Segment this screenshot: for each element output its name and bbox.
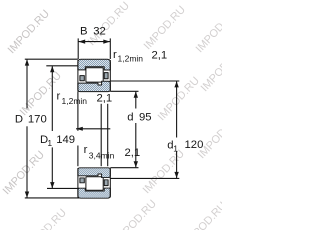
wire: d extension bottom <box>110 167 138 169</box>
wire: B extension right <box>109 38 111 59</box>
wire: axis leader line <box>76 128 110 130</box>
arrow D1 down <box>50 182 54 188</box>
arrow D down <box>25 192 29 198</box>
svg-text:B: B <box>80 26 88 38</box>
svg-text:120: 120 <box>185 139 204 151</box>
dimension line D (lower part) <box>26 126 28 197</box>
wire: d extension top <box>110 90 138 92</box>
arrow d1 up <box>174 81 178 87</box>
svg-text:2,1: 2,1 <box>125 147 141 159</box>
svg-text:1: 1 <box>173 143 178 153</box>
svg-text:1,2min: 1,2min <box>118 54 144 64</box>
wire: d1 extension top <box>110 80 179 82</box>
svg-text:95: 95 <box>139 112 152 124</box>
svg-text:1,2min: 1,2min <box>62 96 88 106</box>
wire: section left edge <box>77 60 79 91</box>
arrow B left <box>78 40 85 44</box>
svg-text:2,1: 2,1 <box>97 93 113 105</box>
svg-text:2,1: 2,1 <box>152 50 168 62</box>
svg-text:1: 1 <box>47 138 52 148</box>
dimension line D1 (lower part) <box>51 147 53 188</box>
arrow d1 down <box>174 172 178 178</box>
arrow d down <box>134 161 138 167</box>
arrow B right <box>103 40 110 44</box>
outer ring upper <box>78 59 110 70</box>
dimension line D (upper part) <box>26 60 28 109</box>
wire: section right edge <box>109 60 111 91</box>
bearing upper half-section <box>78 59 110 91</box>
svg-text:r: r <box>113 49 117 61</box>
wire: inner ring flange line left vertical (lower) <box>77 146 79 167</box>
svg-text:3,4min: 3,4min <box>89 151 115 161</box>
dimension line d1 (upper part) <box>176 81 178 137</box>
wire: D1 extension bottom <box>47 187 79 189</box>
svg-text:d: d <box>127 112 133 124</box>
wire: D extension top <box>25 58 78 60</box>
svg-text:r: r <box>57 91 61 103</box>
wire: B extension left <box>77 38 79 59</box>
wire: flange face vertical 1 <box>100 104 102 166</box>
dimension line d1 (lower part) <box>176 152 178 179</box>
inner ring upper <box>78 81 110 91</box>
svg-text:149: 149 <box>56 134 75 146</box>
cage right upper <box>104 73 108 79</box>
wire: d1 extension bottom <box>110 177 179 179</box>
arrow d up <box>134 92 138 98</box>
roller upper <box>86 68 103 82</box>
svg-text:32: 32 <box>93 26 106 38</box>
svg-text:170: 170 <box>28 113 47 125</box>
wire: D extension bottom <box>25 197 79 199</box>
svg-text:D: D <box>15 113 23 125</box>
cage left upper <box>80 76 84 81</box>
svg-text:r: r <box>84 144 88 156</box>
arrow D up <box>25 59 29 65</box>
dimension line B <box>78 41 110 43</box>
wire: inner ring flange line left vertical <box>77 92 79 131</box>
arrow axis left <box>76 127 83 131</box>
dimension line D1 (upper part) <box>51 66 53 131</box>
bearing lower half-section (mirror) <box>78 168 110 198</box>
wire: D1 extension top <box>46 65 78 67</box>
dimension line d (lower part) <box>135 123 137 167</box>
arrow D1 up <box>50 66 54 72</box>
dimension line d (upper part) <box>135 92 137 109</box>
wire: flange face vertical 2 <box>107 104 109 166</box>
